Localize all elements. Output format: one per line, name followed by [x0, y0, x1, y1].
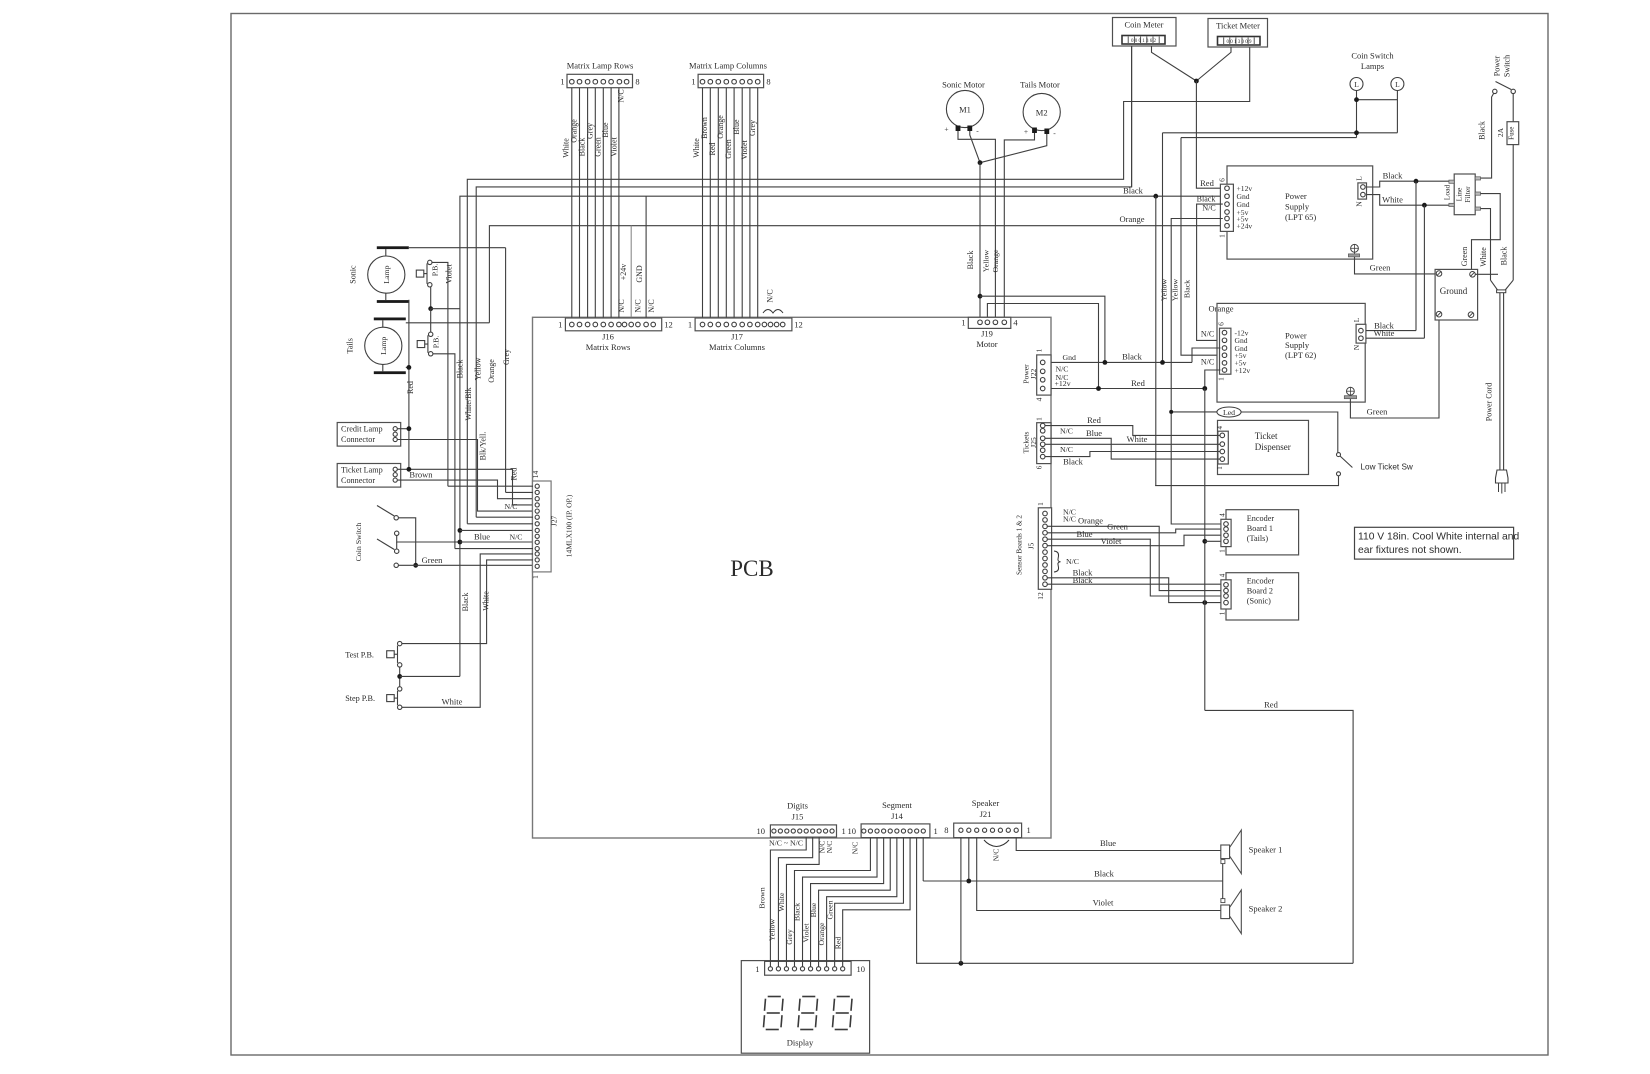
svg-text:J19: J19: [981, 329, 993, 339]
svg-text:Board 1: Board 1: [1247, 524, 1273, 533]
svg-text:4: 4: [1216, 425, 1224, 429]
svg-text:1: 1: [688, 320, 692, 330]
svg-text:N/C: N/C: [510, 533, 523, 542]
svg-text:1: 1: [1036, 502, 1045, 506]
svg-text:N/C: N/C: [1066, 557, 1079, 566]
svg-text:GND: GND: [635, 265, 644, 283]
svg-text:1: 1: [558, 320, 562, 330]
svg-text:Black: Black: [1094, 869, 1115, 879]
svg-text:White: White: [1382, 195, 1403, 205]
svg-text:Black: Black: [1122, 352, 1143, 362]
svg-text:Matrix Rows: Matrix Rows: [586, 342, 631, 352]
svg-text:Red: Red: [1131, 378, 1145, 388]
svg-text:ear fixtures not shown.: ear fixtures not shown.: [1358, 545, 1462, 556]
svg-text:1: 1: [1219, 611, 1227, 615]
svg-text:J17: J17: [731, 332, 743, 342]
svg-text:Red: Red: [1087, 415, 1101, 425]
svg-text:14: 14: [531, 471, 540, 479]
svg-text:Grey: Grey: [585, 123, 594, 139]
svg-text:Coin Switch: Coin Switch: [354, 523, 363, 562]
svg-text:Led: Led: [1223, 408, 1235, 417]
svg-text:10: 10: [857, 964, 866, 974]
svg-text:8: 8: [635, 77, 639, 87]
svg-text:Supply: Supply: [1285, 202, 1310, 212]
svg-text:Credit Lamp: Credit Lamp: [341, 425, 383, 434]
svg-text:12: 12: [794, 320, 803, 330]
svg-text:Black: Black: [578, 138, 587, 157]
svg-text:P.B.: P.B.: [431, 264, 440, 277]
svg-text:Black: Black: [1500, 247, 1509, 266]
svg-text:White: White: [692, 138, 701, 158]
svg-text:1: 1: [1027, 825, 1031, 835]
svg-text:Low Ticket Sw: Low Ticket Sw: [1361, 463, 1413, 472]
svg-text:1: 1: [1219, 549, 1227, 553]
svg-text:Power Cord: Power Cord: [1485, 383, 1494, 421]
svg-text:Segment: Segment: [882, 800, 912, 810]
svg-text:Display: Display: [787, 1038, 814, 1048]
svg-text:Grey: Grey: [502, 349, 511, 365]
svg-text:Orange: Orange: [817, 922, 826, 945]
svg-text:Red: Red: [708, 143, 717, 156]
svg-text:Power: Power: [1285, 191, 1307, 201]
svg-text:N/C: N/C: [825, 841, 834, 854]
svg-text:J27: J27: [550, 516, 559, 527]
svg-text:(LPT 62): (LPT 62): [1285, 350, 1316, 360]
svg-text:+24v: +24v: [619, 264, 628, 281]
svg-text:J5: J5: [1028, 542, 1036, 549]
svg-text:Blue: Blue: [1100, 838, 1116, 848]
svg-text:J14: J14: [891, 811, 904, 821]
svg-text:Green: Green: [1367, 407, 1389, 417]
svg-text:Dispenser: Dispenser: [1255, 442, 1291, 452]
svg-text:Green: Green: [724, 139, 733, 159]
svg-text:Fuse: Fuse: [1508, 127, 1516, 140]
svg-text:Coin Switch: Coin Switch: [1351, 51, 1394, 61]
svg-text:Sensor Boards 1 & 2: Sensor Boards 1 & 2: [1016, 515, 1024, 575]
svg-text:L: L: [1355, 176, 1364, 181]
svg-text:1: 1: [961, 318, 965, 328]
svg-text:White/Blk: White/Blk: [464, 387, 473, 420]
svg-text:J15: J15: [792, 812, 804, 822]
svg-text:Ground: Ground: [1440, 286, 1468, 296]
svg-text:Ticket Meter: Ticket Meter: [1216, 21, 1260, 31]
svg-text:Lamp: Lamp: [382, 265, 391, 283]
svg-text:N/C: N/C: [647, 299, 656, 312]
svg-text:6: 6: [1218, 178, 1227, 182]
svg-text:Black: Black: [1478, 121, 1487, 140]
svg-text:Matrix Lamp Rows: Matrix Lamp Rows: [567, 61, 634, 71]
svg-text:0 0 0 1 3 6 2: 0 0 0 1 3 6 2: [1131, 39, 1157, 44]
svg-text:Blue: Blue: [601, 122, 610, 138]
svg-text:Orange: Orange: [716, 115, 725, 139]
svg-text:Orange: Orange: [1078, 516, 1103, 526]
svg-text:Matrix Lamp Columns: Matrix Lamp Columns: [689, 61, 767, 71]
svg-text:(Tails): (Tails): [1247, 534, 1269, 543]
svg-text:1: 1: [1035, 417, 1044, 421]
svg-text:Green: Green: [1107, 522, 1129, 532]
svg-text:White: White: [777, 892, 786, 912]
svg-text:Speaker: Speaker: [972, 798, 1000, 808]
svg-text:Load: Load: [1443, 185, 1452, 201]
svg-text:Blue: Blue: [809, 902, 818, 917]
svg-text:Black: Black: [455, 360, 464, 379]
svg-text:1: 1: [1216, 466, 1224, 470]
svg-text:PCB: PCB: [730, 556, 773, 581]
svg-text:+24v: +24v: [1237, 222, 1253, 231]
svg-text:Blue: Blue: [474, 532, 490, 542]
svg-text:Orange: Orange: [1208, 304, 1233, 314]
svg-text:Green: Green: [593, 137, 602, 157]
svg-text:Violet: Violet: [1101, 536, 1122, 546]
svg-text:Motor: Motor: [976, 339, 997, 349]
svg-text:Sonic: Sonic: [348, 265, 357, 284]
svg-text:Step P.B.: Step P.B.: [345, 694, 375, 703]
svg-text:Black: Black: [461, 593, 470, 612]
svg-text:Speaker 2: Speaker 2: [1249, 904, 1283, 914]
svg-text:Switch: Switch: [1503, 55, 1512, 77]
svg-text:Red: Red: [406, 381, 415, 394]
svg-text:M1: M1: [959, 105, 971, 115]
svg-text:Violet: Violet: [1093, 898, 1114, 908]
svg-text:Matrix Columns: Matrix Columns: [709, 342, 765, 352]
svg-text:Encoder: Encoder: [1247, 577, 1275, 586]
svg-text:4: 4: [1219, 513, 1227, 517]
svg-text:J21: J21: [980, 809, 992, 819]
svg-text:Power: Power: [1493, 55, 1502, 76]
svg-text:Black: Black: [1063, 457, 1084, 467]
svg-text:White: White: [482, 591, 491, 611]
svg-text:N/C: N/C: [505, 502, 518, 511]
svg-text:Lamps: Lamps: [1361, 61, 1384, 71]
svg-text:0 0 1 3 0 0 9: 0 0 1 3 0 0 9: [1227, 40, 1253, 45]
svg-text:1: 1: [531, 575, 540, 579]
svg-text:4: 4: [1035, 397, 1044, 401]
svg-text:Blue: Blue: [1076, 529, 1092, 539]
svg-text:6: 6: [1217, 322, 1226, 326]
svg-text:Digits: Digits: [787, 801, 808, 811]
svg-text:12: 12: [1036, 592, 1045, 600]
svg-text:Coin Meter: Coin Meter: [1125, 20, 1164, 30]
svg-text:N/C: N/C: [1201, 358, 1214, 367]
svg-text:1: 1: [755, 964, 759, 974]
svg-text:Red: Red: [510, 468, 519, 481]
svg-text:N/C: N/C: [1060, 427, 1073, 436]
svg-text:+: +: [944, 125, 948, 134]
svg-text:Blue: Blue: [1086, 428, 1102, 438]
svg-text:6: 6: [1035, 465, 1044, 469]
svg-text:Black: Black: [1123, 186, 1144, 196]
svg-text:N: N: [1355, 201, 1364, 207]
svg-text:Black: Black: [1383, 171, 1404, 181]
svg-text:+12v: +12v: [1235, 366, 1251, 375]
svg-text:Green: Green: [1460, 247, 1469, 267]
svg-text:Yellow: Yellow: [981, 250, 990, 273]
svg-text:Connector: Connector: [341, 435, 375, 444]
svg-text:N/C: N/C: [617, 299, 626, 312]
svg-text:Tails Motor: Tails Motor: [1020, 80, 1060, 90]
svg-text:Brown: Brown: [758, 887, 767, 908]
svg-text:N/C: N/C: [851, 842, 860, 855]
svg-text:Violet: Violet: [445, 263, 454, 283]
svg-text:1: 1: [934, 826, 938, 836]
svg-text:1: 1: [691, 77, 695, 87]
svg-text:P.B.: P.B.: [432, 336, 441, 349]
svg-text:L: L: [1352, 317, 1361, 322]
svg-text:N/C: N/C: [1201, 330, 1214, 339]
svg-text:4: 4: [1219, 573, 1227, 577]
svg-text:Violet: Violet: [802, 923, 811, 943]
svg-text:N/C: N/C: [1202, 204, 1215, 213]
svg-text:N/C: N/C: [1060, 445, 1073, 454]
svg-text:Red: Red: [833, 937, 842, 950]
svg-text:Black: Black: [1197, 195, 1216, 204]
svg-text:Orange: Orange: [991, 249, 1000, 272]
svg-text:Green: Green: [422, 555, 444, 565]
svg-text:L: L: [1354, 80, 1359, 89]
svg-text:Black: Black: [1182, 280, 1191, 298]
svg-text:1: 1: [1217, 377, 1226, 381]
svg-text:Yellow: Yellow: [1159, 279, 1168, 302]
svg-text:Tails: Tails: [345, 338, 354, 353]
svg-text:(Sonic): (Sonic): [1247, 597, 1271, 606]
svg-text:1: 1: [560, 77, 564, 87]
svg-text:N/C: N/C: [1056, 373, 1069, 382]
svg-text:Green: Green: [1370, 263, 1392, 273]
svg-text:Red: Red: [1200, 178, 1214, 188]
svg-text:Orange: Orange: [1119, 214, 1144, 224]
svg-text:10: 10: [848, 826, 857, 836]
svg-text:N/C: N/C: [634, 299, 643, 312]
svg-text:N/C: N/C: [766, 289, 775, 302]
svg-text:Black: Black: [1073, 575, 1094, 585]
svg-text:10: 10: [757, 826, 766, 836]
svg-text:Yellow: Yellow: [474, 357, 483, 380]
svg-text:Encoder: Encoder: [1247, 514, 1275, 523]
svg-text:Test P.B.: Test P.B.: [345, 650, 374, 659]
svg-text:(LPT 65): (LPT 65): [1285, 212, 1316, 222]
svg-text:Black: Black: [966, 251, 975, 270]
svg-text:1: 1: [1035, 348, 1044, 352]
svg-text:+: +: [1024, 127, 1028, 136]
svg-text:Power: Power: [1285, 331, 1307, 341]
svg-text:Brown: Brown: [409, 470, 433, 480]
svg-text:Gnd: Gnd: [1063, 353, 1077, 362]
svg-text:White: White: [1127, 434, 1148, 444]
svg-text:Yellow: Yellow: [768, 919, 777, 942]
svg-text:8: 8: [944, 825, 948, 835]
svg-text:Ticket Lamp: Ticket Lamp: [341, 466, 383, 475]
svg-text:2A: 2A: [1496, 127, 1505, 137]
svg-text:N/C ~ N/C: N/C ~ N/C: [769, 839, 803, 848]
svg-text:N/C: N/C: [617, 89, 626, 102]
svg-text:Black: Black: [792, 903, 801, 921]
svg-text:Red: Red: [1264, 700, 1278, 710]
svg-text:Ticket: Ticket: [1255, 431, 1278, 441]
svg-text:8: 8: [766, 77, 770, 87]
svg-text:N/C: N/C: [992, 849, 1001, 862]
svg-text:14MLX100 (IP. OP.): 14MLX100 (IP. OP.): [565, 494, 574, 557]
svg-text:N/C: N/C: [1063, 515, 1076, 524]
svg-text:Grey: Grey: [785, 929, 794, 945]
svg-text:Blue: Blue: [732, 119, 741, 135]
svg-text:J16: J16: [602, 332, 614, 342]
svg-text:L: L: [1395, 80, 1400, 89]
svg-text:1: 1: [842, 826, 846, 836]
svg-text:Brown: Brown: [700, 117, 709, 139]
svg-text:Blk/Yell.: Blk/Yell.: [479, 432, 488, 461]
svg-text:Board 2: Board 2: [1247, 587, 1273, 596]
svg-text:M2: M2: [1036, 108, 1048, 118]
svg-text:White: White: [442, 697, 463, 707]
svg-text:Filter: Filter: [1463, 186, 1472, 203]
svg-text:Violet: Violet: [740, 139, 749, 159]
svg-text:Violet: Violet: [609, 136, 618, 156]
svg-text:Orange: Orange: [487, 359, 496, 383]
svg-text:Speaker 1: Speaker 1: [1249, 845, 1283, 855]
svg-text:Lamp: Lamp: [379, 337, 388, 355]
svg-text:Green: Green: [826, 900, 835, 919]
svg-text:110 V 18in. Cool White interna: 110 V 18in. Cool White internal and: [1358, 532, 1519, 543]
svg-text:12: 12: [664, 320, 673, 330]
svg-text:J25: J25: [1029, 437, 1038, 448]
svg-text:White: White: [1479, 247, 1488, 267]
svg-text:Grey: Grey: [748, 120, 757, 136]
svg-text:1: 1: [1218, 234, 1227, 238]
svg-text:Sonic Motor: Sonic Motor: [942, 80, 985, 90]
svg-text:Connector: Connector: [341, 476, 375, 485]
svg-text:Supply: Supply: [1285, 340, 1310, 350]
svg-text:J22: J22: [1029, 369, 1038, 380]
svg-text:White: White: [1374, 328, 1395, 338]
svg-text:N: N: [1352, 344, 1361, 350]
